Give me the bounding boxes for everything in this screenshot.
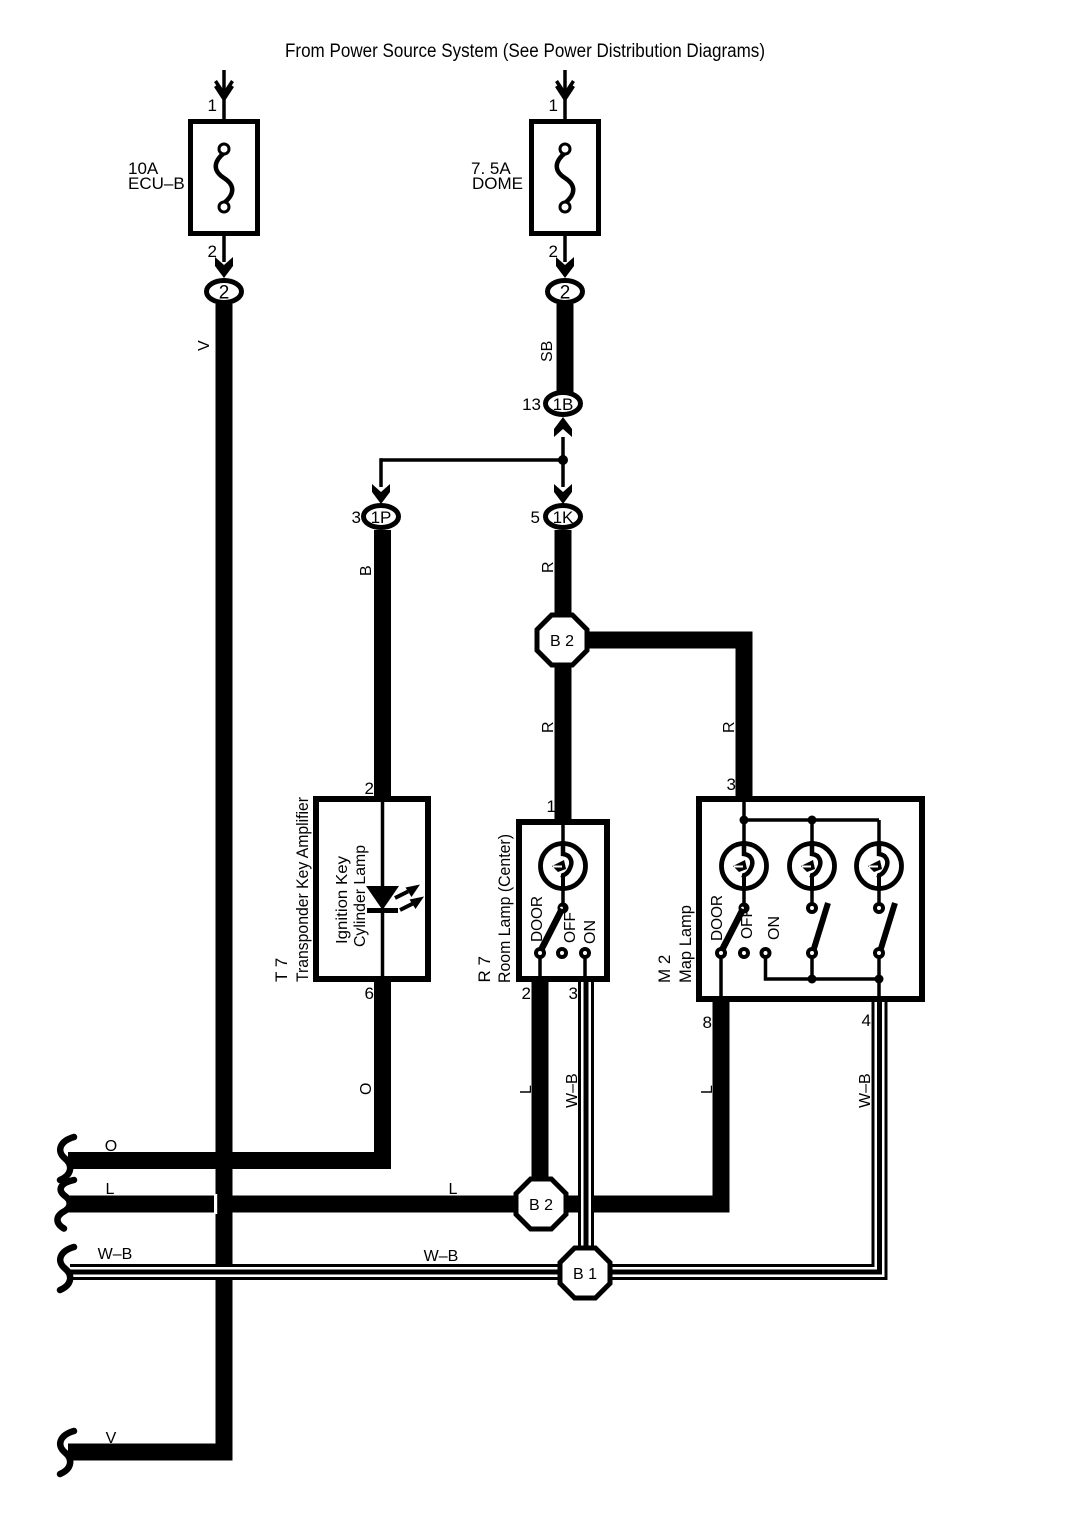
svg-text:O: O	[358, 1083, 375, 1095]
arrow into fuse 1	[557, 81, 574, 94]
svg-text:ON: ON	[766, 916, 783, 940]
torn end L wire	[57, 1180, 74, 1229]
svg-text:Transponder Key Amplifier: Transponder Key Amplifier	[293, 797, 312, 982]
internal wire	[561, 822, 565, 848]
torn end W-B wire	[60, 1247, 74, 1290]
wire out of fuse	[563, 236, 567, 262]
wire R branch horizontal from B2	[562, 632, 753, 649]
wire L drop from M2 pin8	[713, 996, 730, 1213]
svg-text:1B: 1B	[553, 395, 574, 414]
connector oval 2	[548, 281, 583, 303]
svg-text:4: 4	[862, 1011, 871, 1030]
lamp bulb 2	[790, 841, 835, 891]
svg-text:W–B: W–B	[857, 1073, 874, 1108]
svg-text:8: 8	[703, 1013, 712, 1032]
svg-text:DOME: DOME	[472, 174, 523, 193]
switch SW2	[810, 886, 814, 905]
svg-text:R 7: R 7	[475, 956, 494, 982]
torn end O wire	[60, 1137, 74, 1180]
wire W-B main: left end to M2 pin4	[70, 1002, 880, 1272]
svg-text:L: L	[699, 1085, 716, 1094]
svg-text:B 2: B 2	[550, 633, 574, 650]
svg-text:Room Lamp (Center): Room Lamp (Center)	[495, 834, 514, 983]
arrow up into 1B	[554, 417, 572, 437]
svg-text:V: V	[196, 340, 213, 351]
ON bus wire	[766, 957, 880, 979]
svg-text:2: 2	[522, 984, 531, 1003]
svg-text:13: 13	[522, 395, 541, 414]
svg-text:2: 2	[219, 283, 230, 304]
wire W-B from R7 pin3 to B1	[578, 976, 594, 1273]
svg-text:L: L	[106, 1181, 115, 1198]
wire L horizontal	[68, 1196, 730, 1213]
wire junction to 1K	[554, 460, 572, 504]
wire B from 1P to T7	[374, 530, 391, 796]
svg-text:O: O	[105, 1138, 117, 1155]
fuse body	[532, 122, 599, 234]
wire junction to 1P	[372, 458, 563, 504]
arrow down into 1P	[372, 484, 390, 504]
svg-text:W–B: W–B	[424, 1248, 459, 1265]
wire V horizontal bottom	[68, 1444, 233, 1461]
connector oval 2	[207, 281, 242, 303]
wire R branch vertical to M2 pin3	[736, 632, 753, 797]
svg-text:1: 1	[547, 797, 556, 816]
internal wire	[381, 799, 385, 886]
junction B1 octagon	[560, 1248, 610, 1298]
WIRES-LAYER	[68, 304, 753, 1461]
wire L drop from R7 pin2 to B2	[532, 976, 549, 1212]
svg-text:1P: 1P	[371, 508, 392, 527]
svg-text:W–B: W–B	[564, 1073, 581, 1108]
svg-text:2: 2	[560, 283, 571, 304]
svg-text:R: R	[540, 561, 557, 573]
component T7 Transponder Key Amplifier	[272, 779, 428, 1003]
switch SW1	[742, 886, 746, 905]
wire SB from DOME fuse to 1B	[557, 304, 574, 393]
svg-text:R: R	[540, 721, 557, 733]
connector 1P	[352, 506, 399, 528]
svg-text:1: 1	[208, 96, 217, 115]
wire out of fuse	[222, 236, 226, 262]
wire into fuse 1	[563, 70, 567, 119]
svg-text:From Power Source System (See: From Power Source System (See Power Dist…	[285, 41, 765, 62]
LED D1	[366, 886, 399, 910]
connector 1K	[531, 506, 581, 528]
wire O drop from T7 pin6	[374, 982, 391, 1169]
svg-text:Ignition Key: Ignition Key	[334, 856, 351, 944]
svg-text:L: L	[518, 1085, 535, 1094]
arrow to connector	[556, 257, 574, 278]
svg-text:Cylinder Lamp: Cylinder Lamp	[352, 845, 369, 947]
connector 1B	[522, 393, 580, 438]
svg-text:1K: 1K	[553, 508, 574, 527]
svg-text:B 2: B 2	[529, 1197, 553, 1214]
svg-text:W–B: W–B	[98, 1246, 133, 1263]
wire R from 1K through B2 to R7	[555, 530, 572, 819]
svg-text:OFF: OFF	[739, 908, 756, 939]
svg-text:M 2: M 2	[655, 955, 674, 983]
svg-text:3: 3	[352, 508, 361, 527]
svg-text:T 7: T 7	[272, 958, 291, 982]
internal bus	[742, 799, 746, 848]
lamp bulb 1	[722, 841, 767, 891]
switch SW1	[558, 903, 569, 914]
lamp bulb 3	[857, 841, 902, 891]
junction B2 bottom octagon	[516, 1179, 566, 1229]
W-B striped wires	[70, 976, 880, 1273]
svg-text:Map Lamp: Map Lamp	[676, 905, 695, 983]
svg-text:3: 3	[727, 775, 736, 794]
svg-text:L: L	[449, 1181, 458, 1198]
switch SW3	[877, 886, 881, 905]
torn end V wire	[60, 1431, 74, 1474]
crossing gap L over V	[214, 1194, 217, 1214]
svg-text:5: 5	[531, 508, 540, 527]
svg-text:DOOR: DOOR	[529, 896, 546, 942]
svg-text:B: B	[358, 565, 375, 576]
arrow into fuse 1	[216, 81, 233, 94]
component M2 Map Lamp	[655, 775, 922, 1032]
svg-text:B 1: B 1	[573, 1266, 597, 1283]
wire into fuse 1	[222, 70, 226, 119]
wire V vertical from fuse ECU-B	[216, 304, 233, 1461]
component R7 Room Lamp (Center)	[475, 797, 607, 1003]
arrow to connector	[215, 257, 233, 278]
svg-text:ECU–B: ECU–B	[128, 174, 185, 193]
svg-text:SB: SB	[539, 341, 556, 362]
lamp bulb	[541, 841, 586, 891]
wire O horizontal	[68, 1152, 391, 1169]
svg-text:OFF: OFF	[562, 912, 579, 943]
svg-text:DOOR: DOOR	[709, 895, 726, 941]
svg-text:1: 1	[549, 96, 558, 115]
junction B2 top octagon	[537, 615, 587, 665]
fuse F1 10A ECU-B	[128, 70, 258, 304]
svg-text:ON: ON	[582, 920, 599, 944]
node junction under 1B	[558, 437, 568, 465]
svg-text:2: 2	[365, 779, 374, 798]
fuse element	[557, 153, 574, 203]
svg-text:R: R	[721, 721, 738, 733]
arrow down into 1K	[554, 484, 572, 504]
fuse F2 7.5A DOME	[471, 70, 599, 304]
svg-text:6: 6	[365, 984, 374, 1003]
svg-text:3: 3	[569, 984, 578, 1003]
svg-text:V: V	[106, 1430, 117, 1447]
fuse element	[216, 153, 233, 203]
fuse body	[191, 122, 258, 234]
